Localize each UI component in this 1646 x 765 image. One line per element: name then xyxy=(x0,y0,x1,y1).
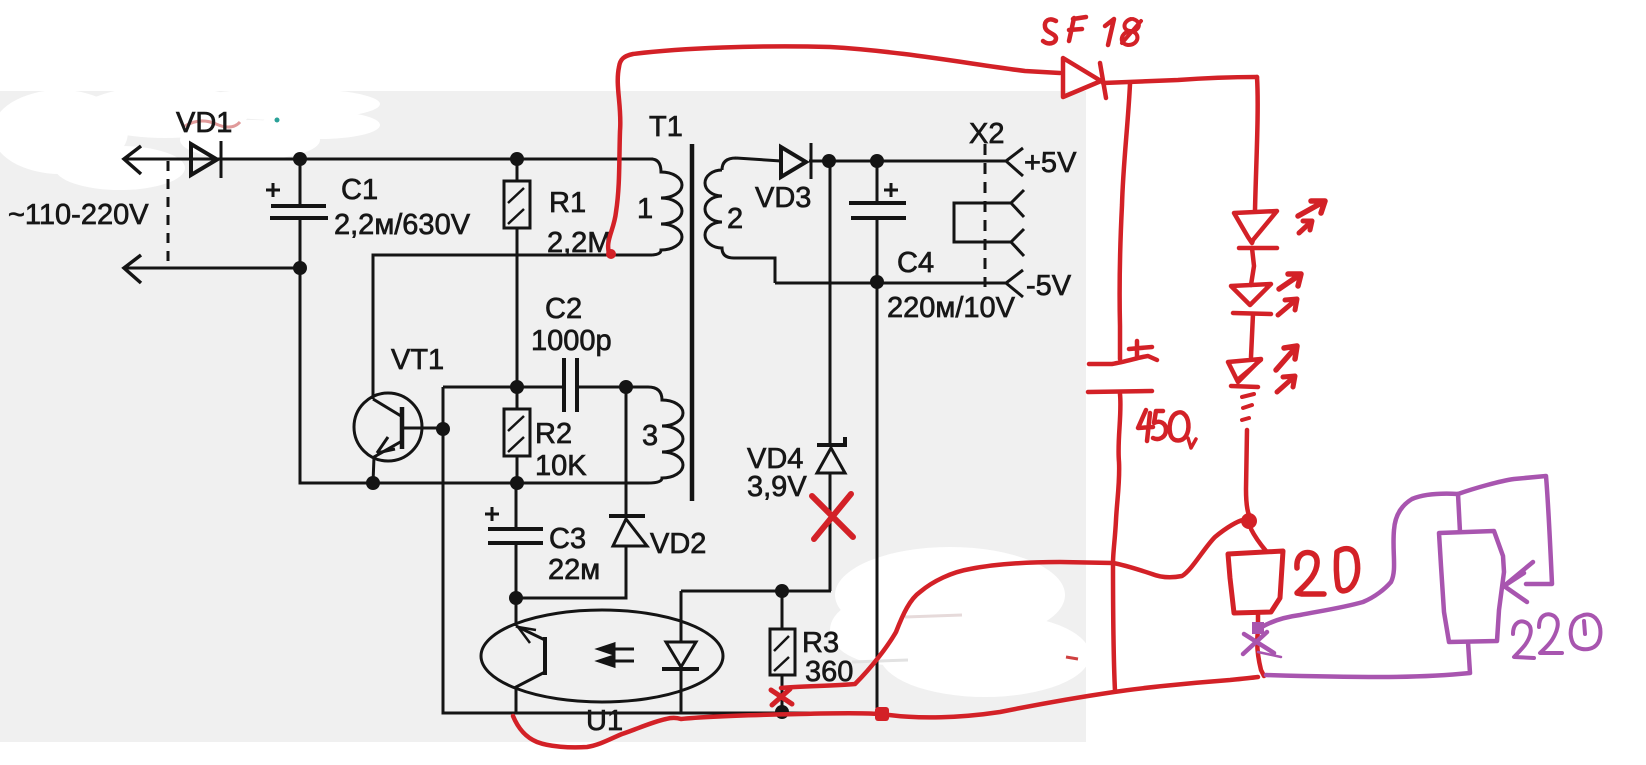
node: rect+ / C1 top xyxy=(293,152,307,166)
transistor VT1 base bar xyxy=(400,407,405,449)
node: C3 bottom xyxy=(509,591,523,605)
red bottom wire to 2D box xyxy=(889,677,1258,717)
white erase patch top-left xyxy=(0,86,380,190)
red capacitor plate top with + xyxy=(1089,356,1157,364)
svg-text:2,2м/630V: 2,2м/630V xyxy=(334,209,471,241)
svg-text:2: 2 xyxy=(727,203,743,235)
wire top rail xyxy=(124,158,653,161)
node: R3 top xyxy=(775,584,789,598)
svg-text:VT1: VT1 xyxy=(391,344,444,376)
svg-text:1000p: 1000p xyxy=(531,325,612,357)
faint erased red smudge under VD1 xyxy=(185,121,240,127)
red LED 2 xyxy=(1231,284,1271,305)
wire lower input rail xyxy=(124,267,300,270)
red LED1 light arrows xyxy=(1298,201,1325,216)
svg-text:~110-220V: ~110-220V xyxy=(8,199,149,231)
red wire led2-led3 xyxy=(1251,314,1253,357)
red junction dot xyxy=(1241,513,1257,529)
wire base node vertical xyxy=(443,387,878,713)
scanned schematic gray area xyxy=(0,91,1086,742)
optocoupler U1 ellipse xyxy=(481,610,723,702)
svg-text:10K: 10K xyxy=(535,450,587,482)
wire VT1 base xyxy=(402,427,443,430)
wire U1 LED top to VD4 xyxy=(681,590,831,593)
svg-text:C2: C2 xyxy=(545,293,582,325)
node: R2 bottom xyxy=(510,476,524,490)
resistor R1 xyxy=(516,159,519,181)
transistor VT1 collector xyxy=(373,399,401,416)
svg-text:3,9V: 3,9V xyxy=(747,471,807,503)
svg-text:1: 1 xyxy=(637,193,653,225)
connector X2 pin -5V xyxy=(1006,270,1023,297)
wire base top to R2 xyxy=(443,386,517,389)
node: C1 bottom xyxy=(293,261,307,275)
resistor R3 xyxy=(781,591,784,629)
connector X2 pin mid2 xyxy=(1011,229,1024,256)
purple arrow xyxy=(1504,562,1533,602)
input arrow top xyxy=(124,146,141,174)
red LED 1 xyxy=(1234,211,1277,243)
red LED 3 xyxy=(1228,359,1261,382)
transistor VT1 emitter with arrow xyxy=(373,441,402,483)
svg-text:VD3: VD3 xyxy=(755,182,811,214)
connector X2 pin +5V xyxy=(1006,148,1023,176)
transistor VT1 circle xyxy=(354,393,422,461)
red wire led1-led2 xyxy=(1251,248,1254,285)
white erase patch middle xyxy=(830,547,1090,697)
svg-text:R2: R2 xyxy=(535,418,572,450)
svg-text:C3: C3 xyxy=(549,523,586,555)
red capacitor plate bottom xyxy=(1088,391,1152,392)
transformer T1 winding 2 xyxy=(705,158,781,283)
red text SF 18 xyxy=(1043,19,1056,43)
svg-text:220м/10V: 220м/10V xyxy=(887,292,1016,324)
diode VD1 xyxy=(191,144,217,175)
red wire down to red capacitor xyxy=(1120,84,1130,359)
dashed input line xyxy=(167,161,170,266)
purple inner box xyxy=(1439,531,1504,642)
transformer T1 winding 3 xyxy=(517,387,683,483)
U1 phototransistor xyxy=(515,598,518,626)
wire top rail right xyxy=(809,160,1006,163)
red wire diode to right corner xyxy=(1103,77,1257,83)
red wire R3 bottom to LED junction xyxy=(781,520,1243,688)
purple node square xyxy=(1252,622,1264,634)
red wire capacitor down to bottom xyxy=(1113,394,1120,691)
capacitor C2 xyxy=(517,386,564,389)
red X over VD4 xyxy=(812,494,853,539)
input arrow bottom xyxy=(124,255,141,283)
node: C4 bottom xyxy=(870,275,884,289)
tiny teal dot xyxy=(275,118,280,123)
purple wire inner box to bottom xyxy=(1266,642,1470,677)
node: VT1 base xyxy=(436,422,450,436)
svg-text:2,2M: 2,2M xyxy=(547,227,611,259)
zener VD4 xyxy=(829,161,832,445)
faint erased marks middle xyxy=(905,615,962,617)
svg-text:C4: C4 xyxy=(897,247,934,279)
svg-text:R3: R3 xyxy=(802,627,839,659)
red LED3 light arrows xyxy=(1276,346,1297,370)
svg-text:T1: T1 xyxy=(649,111,683,143)
red filled square node xyxy=(875,707,889,721)
purple outer box top/right xyxy=(1458,476,1552,584)
diode VD3 xyxy=(781,147,806,177)
resistor R2 xyxy=(516,387,519,409)
red diode SF 18 cathode bar xyxy=(1100,63,1106,98)
node: R3 bottom xyxy=(775,705,789,719)
red squiggle under U1 and bottom wire xyxy=(513,713,877,747)
node: R2 top xyxy=(510,380,524,394)
capacitor C4 xyxy=(876,161,879,203)
diode VD2 xyxy=(625,387,628,516)
node: VD3 out / VD4 xyxy=(822,154,836,168)
red wire from winding1 lead up and across top xyxy=(608,46,1060,255)
red wire 2D box to bottom xyxy=(1257,613,1264,676)
transformer T1 winding 1 xyxy=(650,159,682,255)
transformer T1 core xyxy=(690,144,695,501)
wire left rail down xyxy=(300,268,517,483)
U1 light arrows xyxy=(604,649,634,661)
red wire dashes to junction xyxy=(1246,430,1249,515)
capacitor C1 xyxy=(299,159,302,204)
red wire corner down to LED chain xyxy=(1255,77,1258,210)
U1 LED xyxy=(680,591,683,642)
node: +5V / C4 xyxy=(870,154,884,168)
wire -5V rail xyxy=(775,282,1006,285)
svg-text:+5V: +5V xyxy=(1024,147,1077,179)
red wire junction to 2D box xyxy=(1251,529,1266,551)
node: C2 right / winding3 xyxy=(619,380,633,394)
connector X2 dashed boundary xyxy=(984,144,987,287)
red 2D box xyxy=(1228,551,1283,613)
red text 2D xyxy=(1297,553,1324,594)
node: VT1 emitter xyxy=(366,476,380,490)
svg-text:U1: U1 xyxy=(586,705,623,737)
red diode SF 18 xyxy=(1063,58,1101,97)
svg-text:22м: 22м xyxy=(548,554,600,586)
red LED2 light arrows xyxy=(1279,274,1301,289)
red text 450v xyxy=(1138,410,1153,441)
svg-text:3: 3 xyxy=(642,420,658,452)
svg-text:R1: R1 xyxy=(549,187,586,219)
node: R1 top xyxy=(510,152,524,166)
wire winding1 bottom / VT1 collector xyxy=(373,255,652,399)
red x at R3 bottom xyxy=(771,689,792,705)
purple text 220 xyxy=(1513,621,1534,658)
svg-text:VD1: VD1 xyxy=(176,107,232,139)
svg-text:X2: X2 xyxy=(969,118,1004,150)
purple connector into inner box xyxy=(1458,494,1460,532)
wire right rail down xyxy=(876,282,879,713)
red blob at winding lead xyxy=(606,249,616,259)
connector X2 shorting bracket xyxy=(954,203,1011,242)
connector X2 pin mid1 xyxy=(1011,190,1024,217)
svg-text:VD2: VD2 xyxy=(650,528,706,560)
purple X mark xyxy=(1243,632,1274,654)
svg-text:-5V: -5V xyxy=(1026,270,1072,302)
purple wire from X up to right xyxy=(1262,494,1458,627)
svg-text:C1: C1 xyxy=(341,174,378,206)
capacitor C3 xyxy=(515,483,518,529)
red continuation dashes xyxy=(1242,394,1254,420)
